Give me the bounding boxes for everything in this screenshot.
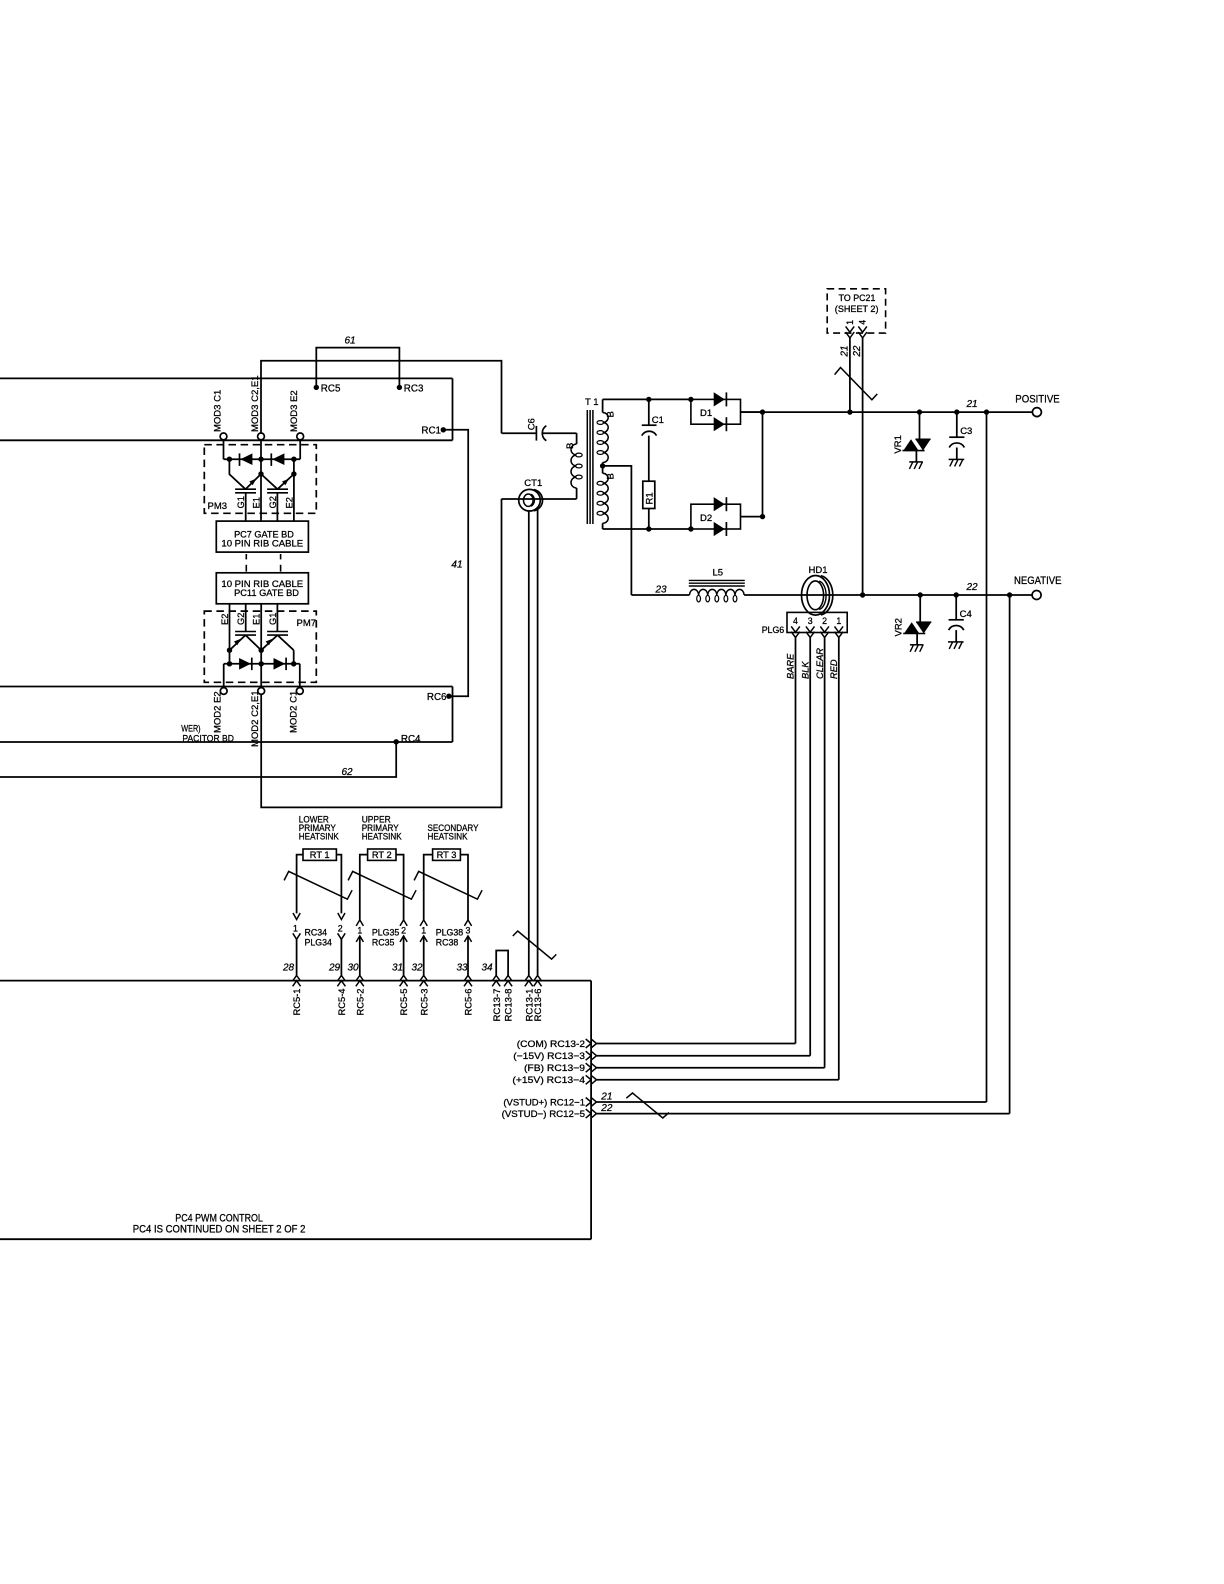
svg-text:POSITIVE: POSITIVE	[1015, 394, 1059, 406]
svg-text:PC11 GATE BD: PC11 GATE BD	[234, 587, 299, 598]
transformer T1 secondary lower winding	[597, 466, 616, 529]
terminal MOD3 C1	[212, 390, 227, 440]
svg-text:RED: RED	[829, 659, 839, 679]
cable slash CT1 leads	[513, 931, 557, 959]
node RC4 and wire 62	[0, 734, 421, 778]
cable slash RT2	[348, 871, 416, 899]
svg-text:RC5-5: RC5-5	[399, 988, 409, 1015]
svg-text:(−15V) RC13−3: (−15V) RC13−3	[513, 1051, 585, 1061]
transformer T1 core	[585, 397, 599, 524]
svg-text:D1: D1	[700, 408, 712, 419]
thermistor RT3	[424, 849, 468, 920]
svg-text:E1: E1	[252, 614, 262, 625]
svg-text:C4: C4	[960, 609, 972, 620]
svg-text:B: B	[605, 473, 616, 479]
pin RC13-7 on PC4	[482, 963, 502, 1022]
svg-text:1: 1	[836, 616, 841, 626]
svg-text:2: 2	[822, 616, 827, 626]
svg-text:1: 1	[293, 924, 298, 934]
svg-text:(+15V) RC13−4: (+15V) RC13−4	[512, 1075, 585, 1085]
svg-text:C3: C3	[960, 426, 972, 437]
wire 21 from PC21 pin 1	[840, 338, 851, 412]
svg-text:L5: L5	[713, 568, 724, 579]
svg-text:61: 61	[344, 336, 355, 347]
terminal NEGATIVE	[1014, 575, 1062, 600]
svg-text:(VSTUD+) RC12−1: (VSTUD+) RC12−1	[503, 1097, 585, 1107]
svg-text:33: 33	[457, 963, 469, 974]
IGBT module PM3 (dashed box)	[204, 445, 316, 514]
PM3 freewheel diode D-upper-1	[240, 453, 253, 466]
svg-text:RC13-7: RC13-7	[492, 988, 502, 1021]
wire secondary top to D1	[603, 398, 691, 400]
svg-text:BARE: BARE	[786, 653, 796, 679]
svg-text:NEGATIVE: NEGATIVE	[1014, 575, 1062, 587]
svg-text:B: B	[605, 411, 616, 417]
heatsink label LOWER PRIMARY	[299, 815, 340, 842]
diode D2 (dual)	[691, 412, 763, 536]
svg-text:PLG34: PLG34	[305, 937, 332, 947]
svg-text:RT 2: RT 2	[372, 850, 392, 860]
node C1 top	[646, 397, 651, 402]
heatsink label UPPER PRIMARY	[362, 815, 403, 842]
pin (−15V) RC13−3 on PC4	[513, 1051, 596, 1061]
terminal MOD3 C2,E1	[250, 376, 265, 440]
transistor IGBT Q3 of PM7	[220, 604, 262, 664]
svg-text:PC4 IS CONTINUED ON SHEET 2 OF: PC4 IS CONTINUED ON SHEET 2 OF 2	[133, 1224, 306, 1236]
pin (+15V) RC13−4 on PC4	[512, 1075, 596, 1085]
svg-text:RC5-1: RC5-1	[292, 988, 302, 1015]
svg-text:HEATSINK: HEATSINK	[428, 832, 469, 842]
wire RC13-9 FB	[597, 1067, 825, 1069]
svg-text:HD1: HD1	[808, 565, 827, 576]
terminal MOD2 C1	[289, 688, 304, 733]
PM7 emitter bus wire	[224, 664, 300, 688]
node RC5	[314, 383, 341, 394]
cable slash RT1	[284, 871, 352, 899]
svg-text:RC13-8: RC13-8	[504, 988, 514, 1021]
node wire22 joins negative bus	[860, 592, 865, 597]
svg-text:G2: G2	[268, 496, 278, 508]
svg-text:C6: C6	[526, 418, 537, 430]
node VSTUD- tap	[1007, 592, 1012, 597]
capacitor C1	[642, 399, 664, 481]
pin (COM) RC13-2 on PC4	[517, 1039, 597, 1049]
svg-text:RT 3: RT 3	[437, 850, 457, 860]
svg-text:PLG35: PLG35	[372, 928, 399, 938]
svg-text:2: 2	[338, 924, 343, 934]
pin RC13-1 on PC4	[524, 975, 534, 1021]
PM3 junction dots	[227, 457, 297, 477]
svg-text:22: 22	[965, 582, 978, 593]
svg-text:21: 21	[840, 346, 851, 358]
svg-text:RC5-6: RC5-6	[464, 988, 474, 1015]
svg-text:HEATSINK: HEATSINK	[299, 832, 340, 842]
thermistor RT1	[297, 849, 342, 913]
pin (FB) RC13−9 on PC4	[524, 1063, 597, 1073]
svg-text:PLG38: PLG38	[436, 928, 463, 938]
svg-text:RC5-4: RC5-4	[337, 988, 347, 1015]
wire RC12-1 VSTUD+ (21)	[597, 1091, 987, 1102]
svg-text:10 PIN RIB CABLE: 10 PIN RIB CABLE	[221, 538, 303, 549]
svg-text:B: B	[565, 443, 576, 449]
PM3 collector bus wire	[224, 440, 301, 474]
svg-text:RC35: RC35	[372, 937, 395, 947]
node wire21/positive bus	[847, 409, 852, 414]
varistor VR2	[894, 595, 932, 652]
svg-text:RC6: RC6	[427, 692, 447, 703]
transistor IGBT Q2 of PM3	[261, 459, 294, 521]
svg-text:G1: G1	[236, 496, 246, 508]
node C4 tap	[954, 592, 959, 597]
svg-text:32: 32	[412, 963, 424, 974]
svg-text:PM7: PM7	[297, 618, 317, 629]
svg-text:(VSTUD−) RC12−5: (VSTUD−) RC12−5	[502, 1109, 585, 1119]
PM7 freewheel diode D-lower-1	[239, 658, 252, 671]
wire HD1 RED	[829, 638, 839, 1080]
svg-text:RC13-6: RC13-6	[533, 988, 543, 1021]
svg-text:2: 2	[401, 926, 406, 936]
svg-text:28: 28	[282, 963, 295, 974]
svg-text:MOD3 C1: MOD3 C1	[212, 390, 223, 432]
PC4 control board box (partial, left)	[0, 981, 591, 1240]
svg-text:(FB) RC13−9: (FB) RC13−9	[524, 1063, 585, 1073]
PM7 junction dots	[227, 648, 297, 667]
svg-text:4: 4	[858, 320, 868, 325]
heatsink label SECONDARY	[428, 823, 479, 842]
wire HD1 CLEAR	[815, 638, 825, 1068]
svg-text:MOD2 C2,E1: MOD2 C2,E1	[250, 691, 261, 748]
wire RC13-3 -15V	[597, 1055, 811, 1057]
wire HD1 BLK	[800, 638, 810, 1056]
node RC1 and wire 41 to RC6	[421, 425, 468, 696]
svg-text:T 1: T 1	[585, 397, 599, 408]
svg-text:G1: G1	[268, 613, 278, 625]
terminal MOD3 E2	[289, 390, 304, 440]
wire secondary bottom to D2	[603, 528, 691, 530]
capacitor C6	[502, 418, 577, 441]
capacitor board box (lower, cut off at left) with partial text	[0, 687, 453, 745]
svg-text:HEATSINK: HEATSINK	[362, 832, 403, 842]
svg-text:RC5: RC5	[321, 383, 341, 394]
varistor VR1	[893, 412, 931, 469]
gate board PC11	[216, 573, 308, 604]
pin RC5-6 on PC4	[457, 963, 474, 1016]
current transformer CT1	[502, 478, 577, 511]
wire RC13-4 +15V	[597, 1079, 839, 1081]
RT1 plug arrows and pins PLG34/RC34	[293, 913, 345, 975]
node RC6	[427, 692, 452, 703]
PM7 freewheel diode D-lower-2	[274, 658, 287, 671]
svg-text:RC1: RC1	[421, 425, 441, 436]
node C3 tap	[954, 409, 959, 414]
svg-text:RC3: RC3	[404, 383, 424, 394]
ribbon cable dashes between PC7 and PC11	[246, 554, 280, 572]
transformer T1 secondary upper winding	[597, 399, 616, 466]
svg-text:22: 22	[852, 345, 863, 357]
svg-text:23: 23	[654, 584, 667, 595]
svg-text:CLEAR: CLEAR	[815, 648, 825, 679]
node VSTUD+ tap	[984, 409, 989, 414]
inductor L5	[689, 568, 745, 602]
positive bus wire 21	[741, 399, 1033, 412]
svg-text:VR1: VR1	[893, 435, 904, 453]
svg-text:3: 3	[466, 926, 471, 936]
RT2 plug arrows and pins PLG35/RC35	[356, 920, 407, 976]
svg-text:RT 1: RT 1	[310, 850, 330, 860]
pin RC5-2 on PC4	[348, 963, 366, 1016]
node R1 bottom	[646, 526, 651, 531]
svg-text:1: 1	[845, 320, 855, 325]
svg-text:VR2: VR2	[894, 618, 905, 636]
cable slash RT3	[414, 871, 482, 899]
pin RC5-4 on PC4	[328, 963, 347, 1016]
svg-text:1: 1	[421, 926, 426, 936]
cable slash VSTUD wires	[626, 1093, 669, 1118]
svg-text:22: 22	[600, 1103, 613, 1114]
hall device HD1	[802, 565, 833, 615]
IGBT module PM7 (dashed box)	[204, 611, 316, 682]
terminal POSITIVE	[1015, 394, 1059, 417]
resistor R1	[643, 481, 656, 529]
svg-text:D2: D2	[700, 513, 712, 524]
node VR1 tap	[917, 409, 922, 414]
jumper RC13-7 to RC13-8	[496, 951, 508, 976]
svg-text:CT1: CT1	[524, 478, 542, 489]
gate board PC7	[216, 521, 308, 552]
svg-text:21: 21	[600, 1091, 612, 1102]
svg-text:RC5-2: RC5-2	[355, 988, 365, 1015]
svg-text:MOD3 C2,E1: MOD3 C2,E1	[250, 376, 261, 433]
svg-text:BLK: BLK	[800, 661, 810, 679]
wire VSTUD+ sense from positive bus	[986, 412, 988, 1102]
negative bus wire 22/23	[631, 582, 1032, 596]
pin RC5-1 on PC4	[282, 963, 302, 1016]
connector PLG6	[762, 612, 848, 637]
svg-text:E2: E2	[284, 497, 294, 508]
connector TO PC21 (sheet 2) dashed box	[827, 289, 885, 338]
svg-text:PACITOR BD: PACITOR BD	[182, 734, 234, 745]
svg-text:E2: E2	[220, 614, 230, 625]
svg-text:62: 62	[341, 767, 353, 778]
node VR2 tap	[918, 592, 923, 597]
transformer center tap node	[600, 463, 605, 468]
svg-text:TO PC21: TO PC21	[839, 293, 876, 303]
pin RC5-5 on PC4	[392, 963, 409, 1016]
wire from MOD2 C2,E1 to CT1 loop	[261, 499, 501, 808]
thermistor RT2	[360, 849, 404, 920]
svg-text:MOD2 E2: MOD2 E2	[213, 691, 224, 733]
CT1 sense wires down to PC4	[529, 509, 538, 976]
wire 61 loop RC5-RC3	[316, 336, 399, 388]
svg-text:MOD2 C1: MOD2 C1	[289, 691, 300, 733]
svg-text:RC5-3: RC5-3	[419, 988, 429, 1015]
capacitor board box (upper, cut off at left)	[0, 378, 453, 440]
terminal MOD2 C2,E1	[250, 688, 265, 747]
pin RC5-3 on PC4	[412, 963, 430, 1016]
cable slash across wires 21/22	[835, 368, 878, 400]
svg-text:1: 1	[357, 926, 362, 936]
pin RC13-6 on PC4	[533, 975, 543, 1021]
node positive/D1	[760, 409, 765, 414]
svg-text:R1: R1	[645, 492, 656, 504]
svg-text:31: 31	[392, 963, 403, 974]
svg-text:RC34: RC34	[305, 928, 328, 938]
svg-text:RC4: RC4	[401, 734, 421, 745]
wire HD1 BARE	[786, 638, 796, 1044]
node RC3	[397, 383, 424, 394]
diode D1 (dual)	[691, 392, 763, 431]
svg-text:21: 21	[965, 399, 977, 410]
terminal MOD2 E2	[213, 688, 228, 733]
svg-text:4: 4	[793, 616, 798, 626]
node D1 input	[688, 397, 693, 402]
wire center tap down to negative bus	[603, 466, 632, 595]
transformer T1 primary winding	[565, 433, 582, 499]
pin (VSTUD+) RC12−1 on PC4	[503, 1097, 596, 1107]
svg-text:41: 41	[451, 560, 462, 571]
PM3 freewheel diode D-upper-2	[271, 453, 284, 466]
svg-text:E1: E1	[252, 497, 262, 508]
capacitor C4 with ground	[948, 595, 972, 649]
svg-text:30: 30	[348, 963, 360, 974]
wire RC12-5 VSTUD- (22)	[597, 1103, 1010, 1114]
wire MOD3 C2,E1 to C6	[261, 361, 502, 434]
pin RC13-8 on PC4	[504, 975, 514, 1021]
transistor IGBT Q1 of PM3	[229, 459, 261, 521]
svg-text:(COM) RC13-2: (COM) RC13-2	[517, 1039, 585, 1049]
RT3 plug arrows and pins PLG38/RC38	[420, 920, 472, 976]
wire VSTUD- sense from negative bus	[1009, 595, 1011, 1114]
svg-text:29: 29	[328, 963, 341, 974]
wire 22 from PC21 pin 4	[852, 338, 863, 595]
pin (VSTUD−) RC12−5 on PC4	[502, 1109, 597, 1119]
node D2 output join	[760, 514, 765, 519]
svg-text:G2: G2	[236, 613, 246, 625]
svg-text:PLG6: PLG6	[762, 625, 785, 635]
transistor IGBT Q4 of PM7	[261, 604, 294, 664]
svg-text:34: 34	[482, 963, 494, 974]
svg-text:(SHEET 2): (SHEET 2)	[835, 304, 879, 314]
svg-text:MOD3 E2: MOD3 E2	[289, 390, 300, 432]
svg-text:RC38: RC38	[436, 937, 459, 947]
capacitor C3 with ground	[949, 412, 973, 466]
node D2 input	[688, 526, 693, 531]
svg-text:PM3: PM3	[208, 501, 228, 512]
wire RC13-2 COM	[597, 1043, 796, 1045]
svg-text:3: 3	[808, 616, 813, 626]
